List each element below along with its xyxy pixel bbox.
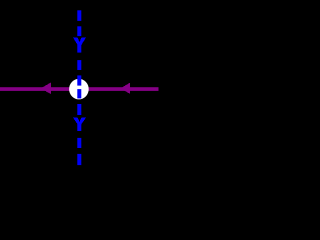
wire: horizontal purple line (flow leftward), x 0..158.5 at y 89 xyxy=(0,87,159,91)
top arrowhead (points down) on blue line xyxy=(73,38,86,49)
wire: vertical blue dashed line (flow downward), x center 79.3 xyxy=(77,10,81,165)
right arrowhead (points left) on purple line xyxy=(121,83,131,95)
node: white circle at junction xyxy=(69,79,89,100)
bottom arrowhead (points down) on blue line xyxy=(73,118,86,127)
left arrowhead (points left) on purple line xyxy=(41,83,51,95)
